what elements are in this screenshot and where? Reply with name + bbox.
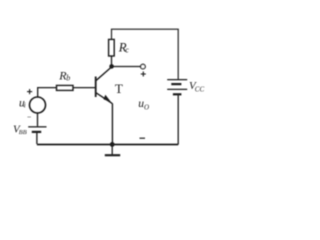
minus sign under source bbox=[27, 116, 31, 118]
svg-text:O: O bbox=[144, 103, 149, 111]
ground bar bbox=[105, 154, 120, 156]
source ui circle bbox=[30, 97, 46, 113]
battery VBB long plate bbox=[28, 126, 46, 128]
transistor T collector lead bbox=[96, 67, 112, 81]
wire source bottom to VBB bbox=[37, 113, 39, 126]
battery VCC long plate 2 bbox=[167, 88, 187, 90]
plus sign at source bbox=[27, 89, 32, 94]
svg-text:c: c bbox=[125, 45, 129, 54]
node collector junction dot bbox=[109, 64, 114, 69]
svg-text:b: b bbox=[66, 74, 70, 83]
wire emitter down bbox=[111, 103, 113, 144]
resistor Rc body bbox=[109, 39, 115, 56]
svg-text:T: T bbox=[115, 81, 123, 96]
battery VCC short plate 2 bbox=[173, 93, 182, 95]
wire top rail bbox=[112, 29, 179, 79]
transistor T emitter lead bbox=[96, 93, 113, 104]
svg-text:i: i bbox=[24, 102, 26, 110]
transistor T emitter arrow bbox=[103, 95, 111, 103]
svg-text:CC: CC bbox=[195, 85, 205, 93]
ground stem bbox=[111, 145, 113, 155]
wire right rail lower bbox=[177, 95, 179, 144]
transistor Q T base bar bbox=[95, 77, 97, 98]
wire Rc bottom to collector node bbox=[111, 56, 113, 66]
wire base from Rb bbox=[73, 87, 96, 89]
svg-text:BB: BB bbox=[19, 129, 27, 136]
wire VBB to bottom rail bbox=[36, 133, 38, 144]
wire source top to Rb bbox=[38, 88, 57, 97]
battery VCC short plate 1 bbox=[171, 83, 181, 85]
output terminal circle (+) bbox=[141, 64, 146, 69]
battery VCC long plate 1 bbox=[167, 79, 187, 81]
wire collector node to output terminal bbox=[112, 66, 141, 68]
resistor Rb body bbox=[57, 85, 74, 90]
minus sign at output bottom bbox=[140, 137, 146, 139]
battery VBB short plate bbox=[32, 131, 41, 133]
node emitter bottom junction dot bbox=[110, 142, 115, 147]
wire bottom rail bbox=[37, 144, 178, 146]
plus sign at output bbox=[141, 72, 146, 77]
